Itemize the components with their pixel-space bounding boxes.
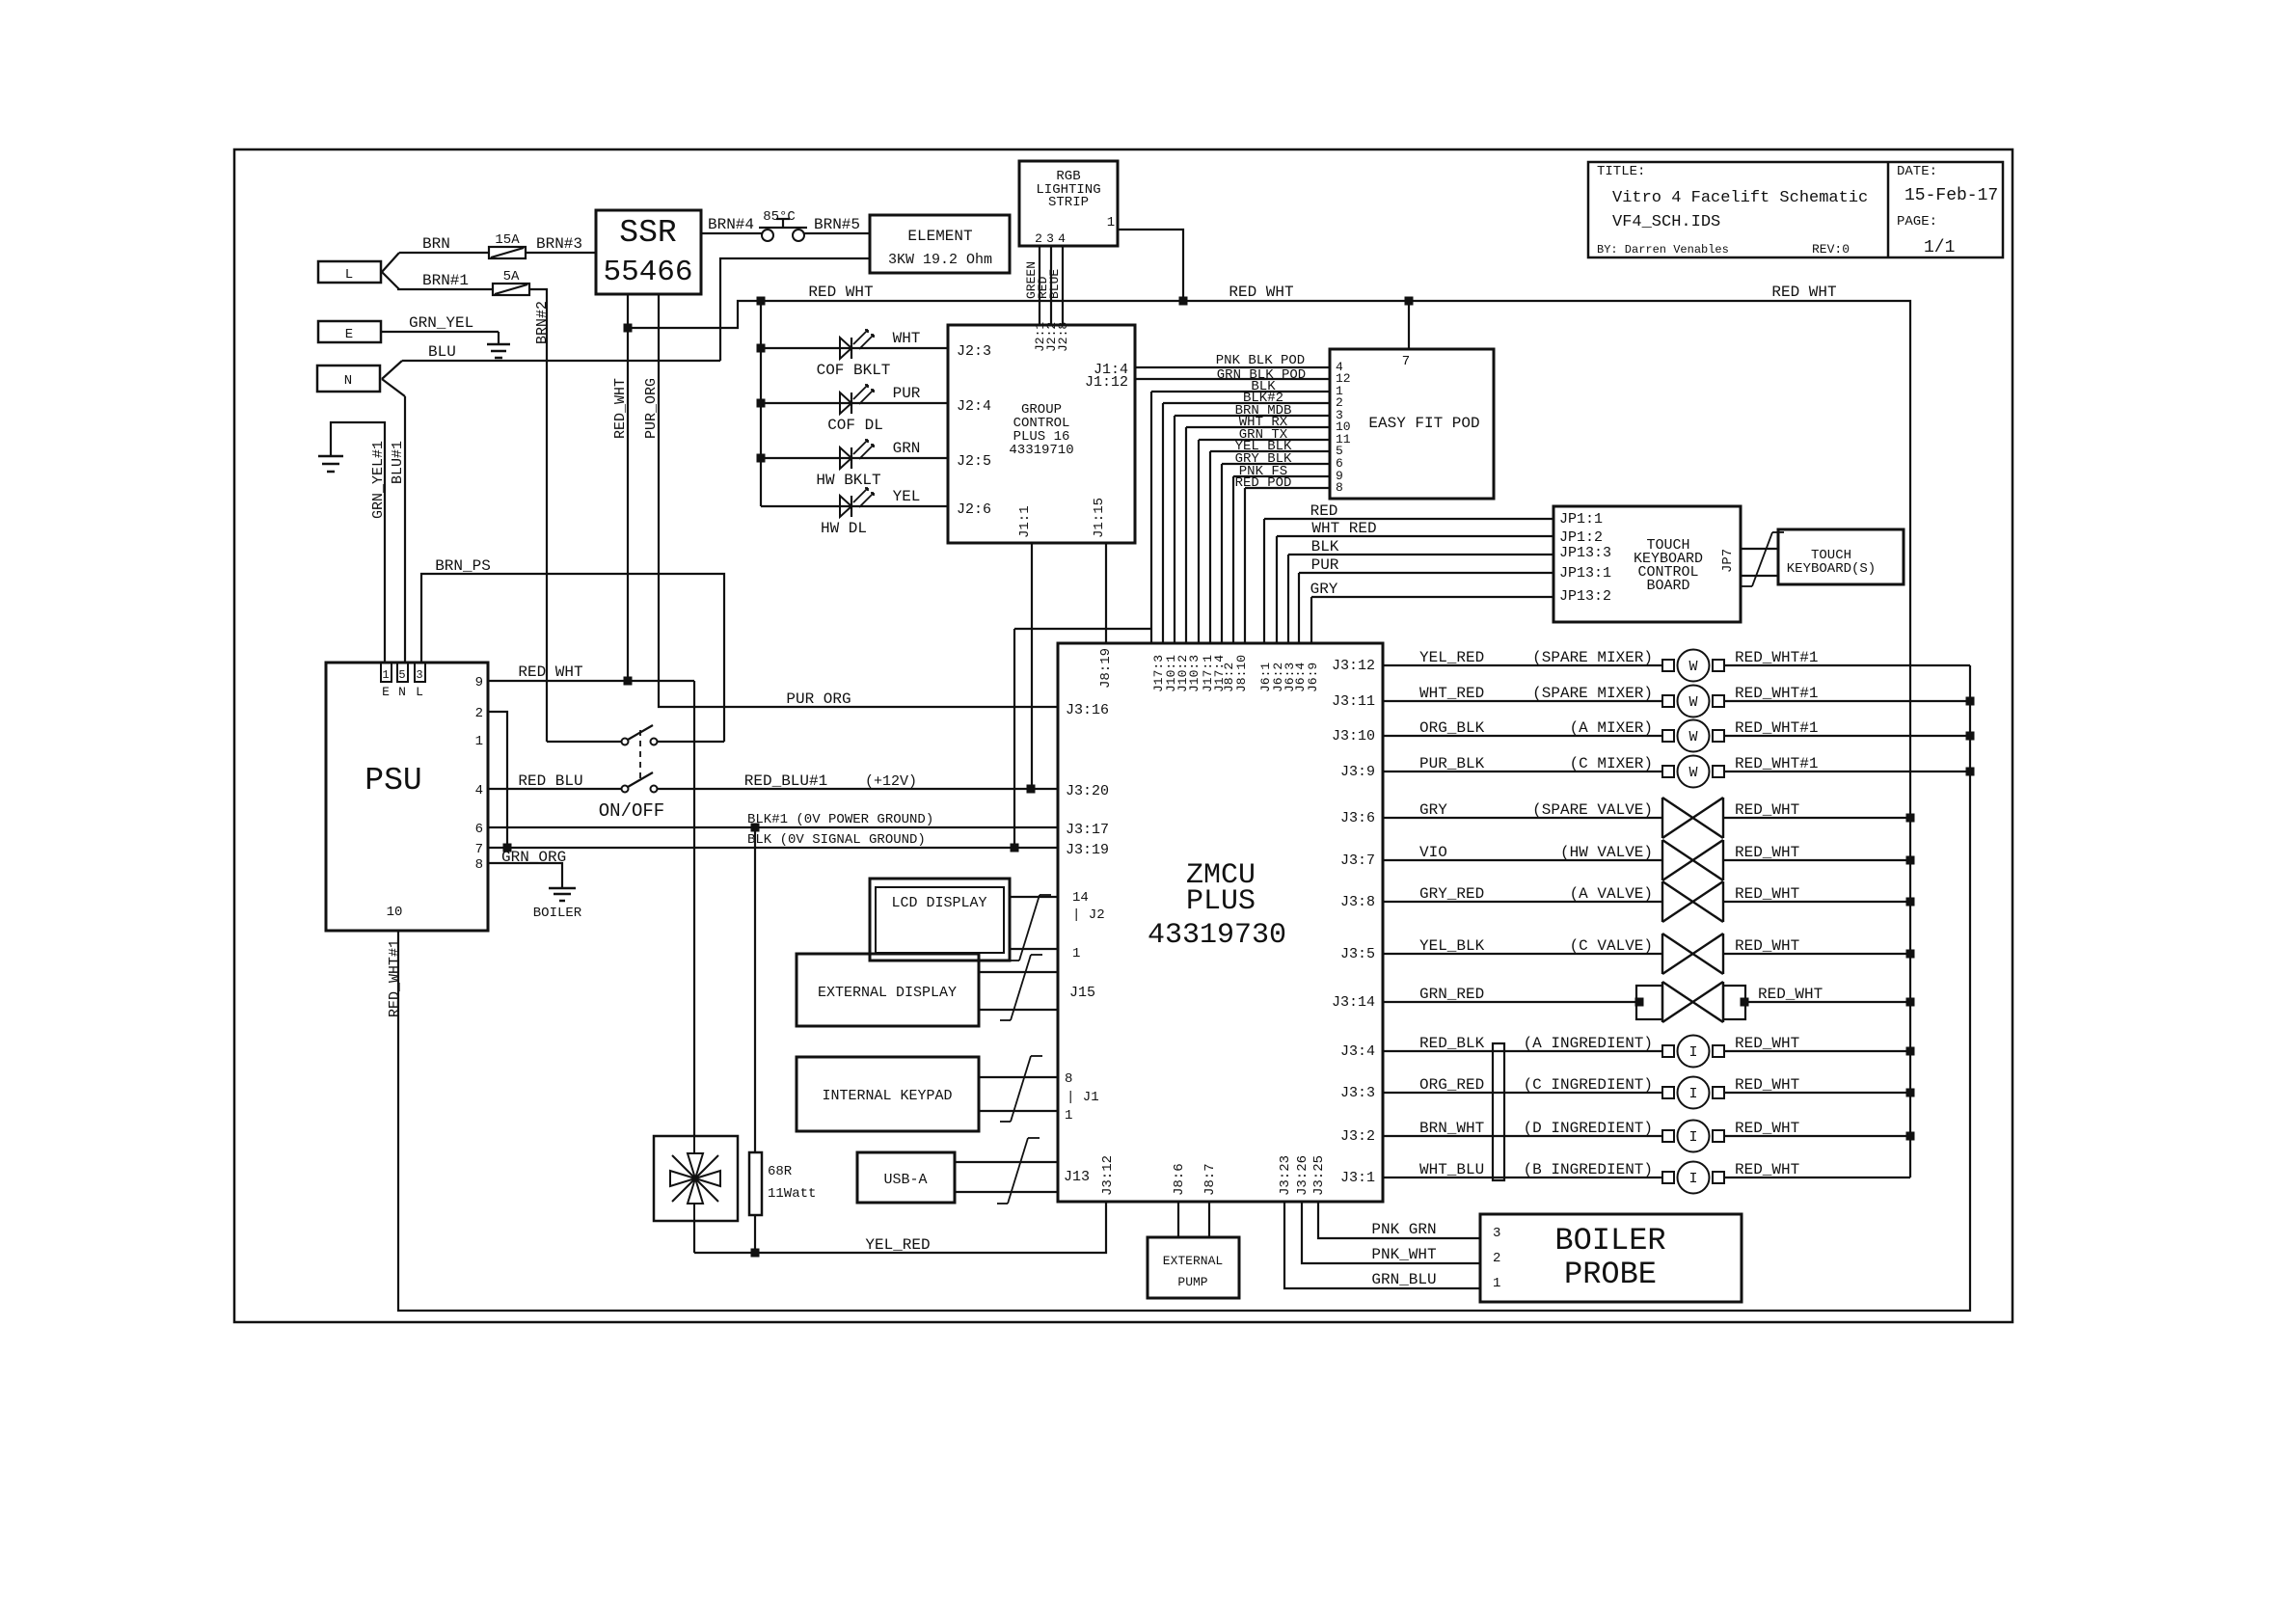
svg-text:9: 9 [475,675,483,690]
wire WHT_BLU [1383,1177,1662,1178]
svg-text:J3:12: J3:12 [1332,658,1375,674]
wire RED_WHT [1724,1177,1910,1178]
PSU [326,663,488,931]
svg-text:RED_BLU#1: RED_BLU#1 [744,772,827,790]
svg-text:GRN_ORG: GRN_ORG [501,849,566,866]
wire RED WHT PSU pin 9 [488,680,694,682]
svg-text:BRN#1: BRN#1 [422,272,469,289]
fuse 15A [489,247,526,258]
node RED_WHT#1 bus [1966,697,1975,706]
svg-text:J3:19: J3:19 [1066,842,1109,858]
wire GRY [1311,596,1553,598]
svg-text:J10:3: J10:3 [1187,655,1202,692]
svg-text:2: 2 [1493,1251,1500,1266]
svg-text:I: I [1688,1086,1697,1102]
wire RED WHT bus [629,301,1910,1177]
node YEL_RED / resistor [751,1249,760,1258]
svg-text:E: E [345,327,353,342]
wire fan to YEL_RED [693,1221,695,1253]
ingredient solenoid C INGREDIENT [1662,1087,1674,1098]
wire RED_POD [1245,487,1330,489]
svg-text:1: 1 [382,668,389,682]
node BLK / pod BLK drop [1011,844,1019,853]
wire PUR_ORG drop from SSR [659,294,1058,707]
svg-text:BY: Darren Venables: BY: Darren Venables [1597,243,1729,257]
svg-text:11Watt: 11Watt [768,1186,816,1202]
node pin2/BLK [503,844,512,853]
svg-text:JP13:2: JP13:2 [1559,588,1611,605]
svg-text:15-Feb-17: 15-Feb-17 [1904,186,1998,205]
wire pod pin7 to RED WHT [1408,301,1410,349]
wire BLU#1 [404,396,406,663]
svg-text:J3:8: J3:8 [1340,894,1375,910]
svg-text:EASY FIT POD: EASY FIT POD [1368,415,1479,432]
RGB lighting strip [1019,161,1118,246]
wire ORG_BLK [1383,735,1662,737]
wire GREEN [1039,246,1040,325]
svg-text:RED_WHT#1: RED_WHT#1 [1735,755,1818,772]
wire BRN#3 [526,252,596,254]
svg-text:PUR_BLK: PUR_BLK [1419,755,1485,772]
svg-text:JP13:1: JP13:1 [1559,565,1611,582]
svg-text:USB-A: USB-A [883,1172,927,1188]
svg-text:GRN_YEL#1: GRN_YEL#1 [370,441,387,519]
svg-text:ON/OFF: ON/OFF [599,800,664,822]
svg-text:(D INGREDIENT): (D INGREDIENT) [1524,1120,1653,1137]
svg-text:(SPARE VALVE): (SPARE VALVE) [1532,801,1653,819]
svg-text:GRN_RED: GRN_RED [1419,986,1484,1003]
wire BRN#5 [804,232,870,234]
svg-text:I: I [1688,1044,1697,1061]
svg-text:1: 1 [1493,1276,1500,1291]
wire BLK#2 [1163,402,1330,404]
svg-text:RED_WHT: RED_WHT [1735,1035,1799,1052]
wire PNK GRN [1318,1202,1480,1238]
svg-text:J3:6: J3:6 [1340,810,1375,826]
PSU pin 1 (E) [381,663,392,682]
svg-text:J2:6: J2:6 [957,501,991,518]
wire keypad b [979,1110,1058,1112]
terminal L [318,261,381,283]
svg-text:RED WHT: RED WHT [1771,284,1836,301]
cable marker J1 [1011,1056,1031,1122]
svg-text:PLUS: PLUS [1186,885,1256,918]
svg-text:15A: 15A [495,232,520,248]
svg-text:J6:9: J6:9 [1306,663,1320,692]
wire YEL_RED [694,1202,1106,1253]
svg-text:YEL_RED: YEL_RED [1419,649,1484,666]
svg-text:GRN: GRN [893,440,921,457]
svg-text:PNK BLK POD: PNK BLK POD [1216,353,1305,368]
ground (boiler) [549,887,576,890]
svg-text:J3:4: J3:4 [1340,1043,1375,1060]
wire usb b [955,1191,1058,1193]
thermal cutout 85C [762,230,773,241]
svg-text:14: 14 [1072,890,1089,906]
svg-text:GRN_BLU: GRN_BLU [1371,1271,1436,1288]
switch ON/OFF mains [622,739,629,745]
svg-text:2: 2 [1035,231,1042,246]
svg-text:1: 1 [1072,946,1080,961]
svg-text:RED WHT: RED WHT [808,284,873,301]
group control plus 16 [948,325,1135,543]
svg-text:STRIP: STRIP [1048,195,1089,210]
svg-text:LCD DISPLAY: LCD DISPLAY [891,895,986,911]
wire BRN#2 [529,289,547,742]
fan [654,1136,738,1221]
LCD display [870,879,1010,961]
svg-text:I: I [1688,1129,1697,1146]
wire pin9 to fan [693,681,695,1136]
svg-text:J3:23: J3:23 [1278,1155,1293,1196]
wire YEL_BLK [1383,953,1662,955]
wire BRN_WHT [1383,1135,1662,1137]
svg-text:J8:10: J8:10 [1234,655,1249,692]
svg-text:(C VALVE): (C VALVE) [1570,937,1653,955]
svg-text:| J2: | J2 [1072,907,1105,923]
svg-text:PNK GRN: PNK GRN [1371,1221,1436,1238]
cable marker JP7 [1752,532,1772,586]
svg-text:WHT_BLU: WHT_BLU [1419,1161,1484,1178]
svg-text:BRN#3: BRN#3 [536,235,582,253]
svg-text:J8:7: J8:7 [1202,1163,1218,1196]
wire RED_WHT [1724,1050,1910,1052]
wire pump b [1208,1202,1210,1237]
svg-text:RED_WHT#1: RED_WHT#1 [1735,719,1818,737]
wire PSU pin 2 to signal ground [488,712,507,848]
svg-text:HW BKLT: HW BKLT [816,472,880,489]
svg-text:RED BLU: RED BLU [518,772,582,790]
svg-text:RED_POD: RED_POD [1235,475,1292,491]
svg-text:L: L [416,685,423,699]
node RED_WHT branch [624,324,633,333]
wire GRY_RED [1383,901,1662,903]
svg-text:J8:19: J8:19 [1098,648,1114,689]
svg-text:3: 3 [416,668,422,682]
wire VIO [1383,859,1662,861]
internal keypad [797,1057,979,1131]
node LED feeder PUR [757,399,766,408]
svg-text:J2:4: J2:4 [957,398,991,415]
node J1:1 / +12V [1027,785,1036,794]
svg-text:COF DL: COF DL [827,417,883,434]
svg-text:W: W [1688,729,1697,745]
svg-text:N: N [344,373,352,389]
svg-text:RED_BLK: RED_BLK [1419,1035,1485,1052]
svg-text:J1:1: J1:1 [1017,505,1033,538]
mixer A MIXER [1662,730,1674,742]
switch ON/OFF low side [622,786,629,793]
svg-text:ORG_BLK: ORG_BLK [1419,719,1485,737]
svg-text:PUR_ORG: PUR_ORG [643,378,660,439]
svg-text:6: 6 [475,822,483,837]
svg-text:TITLE:: TITLE: [1597,164,1645,179]
wire BRN#4 [701,232,762,234]
svg-text:1: 1 [1065,1108,1072,1123]
LED COF DL / wire PUR [761,402,948,404]
svg-text:J3:9: J3:9 [1340,764,1375,780]
svg-text:BRN#4: BRN#4 [708,216,754,233]
wire WHT_RED [1383,700,1662,702]
svg-text:WHT RED: WHT RED [1311,520,1376,537]
svg-text:GRY: GRY [1310,581,1338,598]
svg-text:J3:7: J3:7 [1340,853,1375,869]
svg-text:1: 1 [475,734,483,749]
svg-text:J3:25: J3:25 [1311,1155,1327,1196]
wire LCD to J2 pin1 [1010,948,1058,950]
svg-text:BOILER: BOILER [533,906,582,921]
svg-text:VF4_SCH.IDS: VF4_SCH.IDS [1612,213,1720,231]
wire YEL_BLK [1210,450,1330,452]
touch keyboard(s) [1778,529,1904,584]
svg-text:43319710: 43319710 [1009,443,1073,458]
svg-text:HW DL: HW DL [821,520,867,537]
svg-text:BOILER: BOILER [1554,1223,1665,1259]
svg-text:VIO: VIO [1419,844,1447,861]
wire BLU [402,360,720,362]
wire ext display b [979,1009,1058,1011]
svg-text:PUR: PUR [1311,556,1339,574]
svg-text:WHT: WHT [893,330,921,347]
wire RED_WHT#1 return [398,665,1970,1311]
wire BLK#1 0V power ground [488,826,1058,828]
svg-text:8: 8 [475,857,483,873]
svg-text:RED WHT: RED WHT [1229,284,1293,301]
node RED WHT / RGB strip [1179,297,1188,306]
terminal N [317,365,380,392]
wire WHT RED [1277,535,1553,537]
wire GRY_BLK [1222,463,1330,465]
svg-text:J1:15: J1:15 [1092,498,1107,538]
svg-text:J2:5: J2:5 [957,453,991,470]
node RED_WHT bus [1906,898,1915,907]
svg-text:J3:16: J3:16 [1066,702,1109,718]
touch keyboard control board [1553,506,1741,622]
svg-text:J3:26: J3:26 [1295,1155,1310,1196]
fuse 5A [493,284,529,295]
wire PNK_FS [1233,475,1330,477]
svg-text:| J1: | J1 [1067,1090,1099,1105]
wire switch top right [658,741,724,743]
wire RED_WHT [1723,901,1910,903]
svg-text:J3:14: J3:14 [1332,994,1375,1011]
ingredient solenoid B INGREDIENT [1662,1172,1674,1183]
svg-text:(SPARE MIXER): (SPARE MIXER) [1532,685,1653,702]
wire BRN#1 [397,288,493,290]
cable marker J13 [1008,1138,1028,1204]
wire usb a [955,1161,1058,1163]
node RED WHT / EASY FIT POD [1405,297,1414,306]
svg-text:PSU: PSU [365,763,421,798]
svg-text:YEL_BLK: YEL_BLK [1419,937,1485,955]
svg-text:W: W [1688,694,1697,711]
svg-text:8: 8 [1065,1071,1072,1087]
svg-text:RED_WHT: RED_WHT [1758,986,1823,1003]
svg-text:Vitro 4 Facelift Schematic: Vitro 4 Facelift Schematic [1612,189,1868,207]
title block [1588,162,2003,257]
svg-text:YEL_RED: YEL_RED [865,1236,930,1254]
wire RED_WHT#1 [1724,664,1970,666]
PSU pin 5 (N) [397,663,408,682]
svg-text:RED: RED [1310,502,1338,520]
cable marker J15 [1011,955,1031,1020]
wire keyboard b [1741,575,1778,577]
terminal E [318,321,381,342]
wire LCD to J2 pin14 [1010,896,1058,898]
wire YEL_RED [1383,664,1662,666]
svg-text:RED_WHT: RED_WHT [1735,1161,1799,1178]
svg-text:1: 1 [1107,215,1115,230]
svg-text:KEYBOARD(S): KEYBOARD(S) [1787,561,1876,577]
svg-text:J3:2: J3:2 [1340,1128,1375,1145]
svg-text:J3:11: J3:11 [1332,693,1375,710]
external pump [1148,1237,1239,1298]
LED HW BKLT / wire GRN [761,457,948,459]
svg-text:I: I [1688,1171,1697,1187]
svg-text:RED_WHT: RED_WHT [1735,885,1799,903]
wire BLK [1151,391,1330,392]
svg-text:10: 10 [387,905,403,920]
svg-text:4: 4 [475,783,483,798]
svg-text:BRN: BRN [422,235,450,253]
wire BRN_PS [421,574,724,742]
wire PUR_BLK [1383,771,1662,772]
svg-text:4: 4 [1058,231,1066,246]
svg-text:J3:10: J3:10 [1332,728,1375,744]
svg-text:W: W [1688,659,1697,675]
svg-text:J15: J15 [1069,985,1095,1001]
svg-text:BLUE: BLUE [1047,269,1062,299]
node pin9/RED_WHT drop [624,677,633,686]
wire RED [1264,518,1553,520]
svg-text:BOARD: BOARD [1646,578,1689,594]
wire ext display a [979,971,1058,973]
svg-text:ORG_RED: ORG_RED [1419,1076,1484,1094]
svg-text:BLK: BLK [1311,538,1339,555]
svg-text:INTERNAL KEYPAD: INTERNAL KEYPAD [822,1088,952,1104]
svg-text:W: W [1688,765,1697,781]
svg-text:L: L [345,267,353,283]
wire GRN_ORG [488,863,562,888]
svg-text:(A INGREDIENT): (A INGREDIENT) [1524,1035,1653,1052]
wire GRN_RED [1383,1001,1636,1003]
ingredient connector bar [1493,1043,1504,1180]
svg-text:(+12V): (+12V) [865,773,917,790]
svg-text:J3:5: J3:5 [1340,946,1375,962]
wire RED_WHT [1723,953,1910,955]
node RED_WHT bus [1906,1089,1915,1097]
svg-text:RED_WHT: RED_WHT [1735,801,1799,819]
svg-text:WHT_RED: WHT_RED [1419,685,1484,702]
svg-text:3KW 19.2 Ohm: 3KW 19.2 Ohm [888,252,992,268]
wire RED_WHT#1 [1724,735,1970,737]
node LED feeder WHT [757,344,766,353]
svg-text:J3:1: J3:1 [1340,1170,1375,1186]
svg-text:J3:20: J3:20 [1066,783,1109,799]
svg-text:43319730: 43319730 [1148,919,1286,952]
wire GRY [1383,817,1662,819]
svg-text:E: E [382,685,390,699]
LED COF BKLT / wire WHT [761,347,948,349]
wire WHT_RX [1186,426,1330,428]
heating element 3KW [870,215,1010,273]
node RED_WHT bus [1906,998,1915,1007]
LED HW DL / wire YEL [761,505,948,507]
svg-text:GRY: GRY [1419,801,1447,819]
USB-A [857,1152,955,1203]
svg-text:RED_WHT: RED_WHT [1735,844,1799,861]
wire GRN_YEL to earth [381,331,499,333]
svg-text:(SPARE MIXER): (SPARE MIXER) [1532,649,1653,666]
svg-text:PROBE: PROBE [1564,1257,1657,1292]
svg-text:JP13:3: JP13:3 [1559,545,1611,561]
svg-text:PAGE:: PAGE: [1897,214,1937,230]
wire RED_WHT [1724,1092,1910,1094]
easy fit pod [1330,349,1494,499]
wire RED_WHT [1723,817,1910,819]
valve GRN_RED (with couplers) [1636,986,1662,1019]
svg-text:85°C: 85°C [763,209,796,225]
svg-text:BLK#1 (0V POWER GROUND): BLK#1 (0V POWER GROUND) [747,812,933,827]
svg-text:PUR: PUR [893,385,921,402]
svg-text:J3:3: J3:3 [1340,1085,1375,1101]
mixer SPARE MIXER [1662,695,1674,707]
wire PUR [1299,572,1553,574]
svg-text:RED_WHT: RED_WHT [1735,1120,1799,1137]
svg-text:RED_WHT: RED_WHT [1735,1076,1799,1094]
mixer C MIXER [1662,766,1674,777]
svg-text:JP1:1: JP1:1 [1559,511,1603,528]
node RED_WHT bus [1906,814,1915,823]
wire RED_WHT [1723,859,1910,861]
svg-text:BLK (0V SIGNAL GROUND): BLK (0V SIGNAL GROUND) [747,832,926,848]
svg-text:DATE:: DATE: [1897,164,1937,179]
node RED WHT / LED feeder [757,297,766,306]
boiler probe [1480,1214,1742,1302]
wire RED_WHT#1 [1724,700,1970,702]
valve SPARE VALVE [1661,798,1663,838]
svg-text:3: 3 [1046,231,1054,246]
svg-text:BRN#2: BRN#2 [534,301,551,344]
svg-text:J1:12: J1:12 [1085,374,1128,391]
valve C VALVE [1661,934,1663,974]
cable marker J2 [1019,895,1040,961]
node RED_WHT bus [1906,1132,1915,1141]
svg-text:(C INGREDIENT): (C INGREDIENT) [1524,1076,1653,1094]
node RED_WHT#1 bus [1966,732,1975,741]
wire keyboard a [1741,548,1778,550]
svg-text:68R: 68R [768,1164,793,1179]
wire RED_BLK [1383,1050,1662,1052]
node RED_WHT bus [1906,856,1915,865]
wire RED_WHT [1724,1135,1910,1137]
wire J1:1 to +12V [1031,543,1033,789]
ground (mains earth) [487,343,510,346]
svg-text:BLU#1: BLU#1 [390,441,406,484]
wire pump a [1177,1202,1179,1237]
svg-text:7: 7 [1402,354,1410,369]
svg-text:(A VALVE): (A VALVE) [1570,885,1653,903]
svg-text:GRY_RED: GRY_RED [1419,885,1484,903]
wire PNK_WHT [1302,1202,1480,1263]
svg-text:7: 7 [475,842,483,857]
svg-text:JP7: JP7 [1720,549,1736,573]
ingredient solenoid D INGREDIENT [1662,1130,1674,1142]
svg-text:BRN_PS: BRN_PS [435,557,491,575]
svg-text:J3:12: J3:12 [1100,1155,1116,1196]
wire GRN_TX [1199,439,1330,441]
wire BRN [399,252,489,254]
